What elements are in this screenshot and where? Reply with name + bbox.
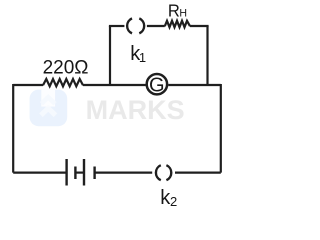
wire upper loop left vertical <box>109 26 111 85</box>
battery cell plate 1 (long) <box>65 159 67 186</box>
wire top mid segment <box>147 25 165 27</box>
battery cell plate 2 (short) <box>74 167 76 180</box>
wire outer left vertical <box>12 84 14 173</box>
battery cell plate 3 (long) <box>83 159 85 186</box>
svg-text:MARKS: MARKS <box>86 95 185 125</box>
battery cell plate 4 (short) <box>93 167 95 180</box>
svg-text:RH: RH <box>168 0 187 21</box>
wire between cells <box>75 172 84 174</box>
wire bottom left segment <box>13 172 66 174</box>
switch k1 <box>127 18 144 33</box>
wire outer right vertical <box>220 84 222 173</box>
wire middle horizontal mid segment <box>83 84 146 86</box>
wire bottom mid segment <box>95 172 153 174</box>
wire top left segment <box>109 25 125 27</box>
watermark logo square <box>30 90 68 127</box>
wire top right segment <box>190 25 209 27</box>
resistor 220ohm zigzag <box>43 79 83 86</box>
wire middle horizontal left segment <box>13 84 43 86</box>
wire upper loop right vertical <box>206 26 208 85</box>
svg-text:k2: k2 <box>160 187 177 209</box>
svg-text:G: G <box>149 75 165 97</box>
galvanometer G <box>147 74 167 97</box>
svg-text:k1: k1 <box>130 43 146 65</box>
wire bottom right segment <box>175 172 221 174</box>
rheostat RH zigzag <box>165 21 190 27</box>
wire middle horizontal right segment <box>168 84 221 86</box>
switch k2 <box>156 165 171 180</box>
svg-text:220Ω: 220Ω <box>43 58 89 79</box>
